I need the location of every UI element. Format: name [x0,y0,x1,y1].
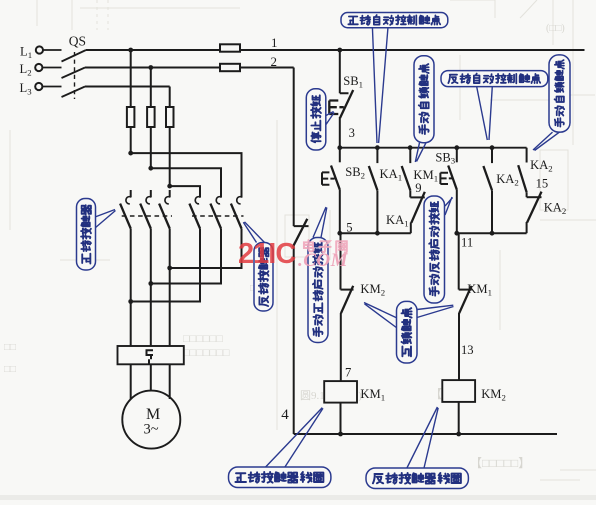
pointer: self-lock right [533,132,560,150]
callout: forward auto control contact [341,13,448,28]
terminal L3 [35,83,42,90]
junction node phase A [128,151,133,156]
contactor coil KM2 [442,380,475,402]
svg-text:(□□): (□□) [546,23,565,34]
pointer: self-lock left [415,143,426,162]
wire node5 down [340,233,342,289]
svg-text:QS: QS [69,34,86,49]
pointer: interlock left [364,303,397,329]
contactor aux contact KM1 (NO, self-lock) [409,148,411,163]
relay contact KA2 (NC) [527,196,542,198]
wire KM2 col6 crossover to phase C [170,236,242,268]
SB1 actuator E [329,101,344,115]
wire KM2 col5 crossover to phase B [151,236,221,284]
callout: reverse contactor [254,243,273,312]
pointer: interlock right [417,305,454,317]
fuse FU2 [220,64,240,71]
svg-text:4: 4 [281,407,289,423]
pointer: stop button [326,112,334,125]
svg-text:1: 1 [271,35,278,50]
pointer: forward contactor [95,210,116,229]
svg-text:□□: □□ [4,364,16,375]
callout: manual self-lock contact (right) [549,55,570,132]
relay contact KA2 (NO, auto control) [491,148,493,163]
svg-text:M: M [146,406,160,423]
svg-text:5: 5 [346,221,352,235]
node 3 bus wire [340,147,527,149]
pointer: manual fwd start [313,207,327,238]
SB3 actuator E [440,173,452,184]
callout: reverse auto control contact [441,71,548,87]
svg-text:□□□□□□□: □□□□□□□ [183,347,230,359]
wire drop phase B [150,68,152,169]
relay contact KA1 (NC) [410,196,425,198]
wire FR to motor 2 [150,364,152,391]
KM2 main contact 1 [199,190,201,197]
svg-text:13: 13 [461,343,474,357]
svg-text:11: 11 [461,236,473,250]
relay contact KA1 (NO, auto control) [376,148,378,163]
wire KM1 col1 down [130,236,132,346]
start button SB3 (NO pushbutton) [456,148,458,163]
callout: manual forward start button [308,238,328,343]
svg-text:【□□□□□】: 【□□□□□】 [470,456,530,470]
start button SB2 (NO pushbutton) [339,148,341,163]
callout: manual reverse start button [424,196,445,303]
thermal overload relay FR box [118,346,184,364]
KM2 main contact 2 [220,190,222,197]
disconnect switch QS pole 2 [42,68,85,79]
wire line 1 [86,49,585,51]
junction line1/fuse drop [128,48,133,53]
fuse FU3 [127,107,134,127]
wire KM1 col3 down [169,236,171,346]
KM2 linkage dashed line [192,215,244,217]
callout: reverse contactor coil [366,468,468,489]
wire line 4 (bottom return) [294,433,557,435]
fuse FU5 [166,107,174,127]
wire drop phase A [130,50,132,153]
junction line2/fuse drop [148,65,153,70]
wire FR to motor 3 [169,364,171,399]
KM1 main contact 3 [169,190,171,197]
node 5 bus wire [340,232,411,234]
QS linkage dashed line [74,52,76,99]
terminal L1 [36,46,43,53]
contactor coil KM1 [324,381,357,403]
wire phase B to KM2 col5 [151,168,221,197]
thermal relay FR contact (NC) on rail [293,219,308,247]
svg-text:7: 7 [345,366,351,380]
left rail from line 2 [294,68,309,227]
wire FR to motor 1 [130,364,132,399]
pointer: reverse contactor [243,222,264,243]
callout: stop button [306,89,326,150]
motor M 3~ [122,391,180,449]
pointer: reverse auto contact [477,86,493,140]
svg-text:.СОМ: .СОМ [298,250,349,271]
callout: forward contactor coil [229,467,331,488]
svg-text:□□: □□ [4,342,16,353]
wire phase A to KM2 col6 [131,153,242,198]
svg-text:9: 9 [415,181,421,195]
svg-text:21IC: 21IC [238,238,296,270]
node 11 bus wire [457,232,527,234]
SB2 actuator E [322,172,335,184]
disconnect switch QS pole 3 [42,87,85,98]
pointer: manual rev start [445,197,453,215]
KM2 main contact 3 [241,190,243,197]
wire drop phase C [169,87,171,187]
stop button SB1 (NC pushbutton) [340,50,349,93]
watermark dianziwang [304,240,347,253]
svg-text:3~: 3~ [144,422,159,438]
wire KM1 col2 down [150,236,152,346]
wire line 2 [85,67,294,69]
svg-text:3: 3 [349,126,355,140]
pointer: forward auto contact [372,27,388,143]
fuse FU4 [147,107,155,127]
pointer: KM2 coil callout [407,407,438,468]
junction node phase C [167,184,172,189]
junction line1/control tap [337,48,342,53]
pointer: KM1 coil callout [266,408,323,467]
wire line 3 [85,86,170,88]
wire KM2 col4 crossover to phase A [131,236,200,302]
KM1 linkage dashed line [122,215,172,217]
junction node phase B [148,166,153,171]
watermark 21IC [238,238,296,270]
contactor contact KM2 (NC, interlock) [341,289,354,291]
fuse FU1 [220,44,240,51]
KM1 main contact 1 [130,190,132,197]
svg-text:2: 2 [271,54,278,69]
wire node11 down [458,233,460,289]
terminal L2 [35,64,42,71]
svg-text:□□□□□□: □□□□□□ [183,333,223,345]
callout: forward contactor [77,199,96,271]
callout: interlock contacts [397,301,418,363]
svg-text:15: 15 [536,176,549,190]
KM1 main contact 2 [150,190,152,197]
contactor contact KM1 (NC, interlock) [459,289,472,291]
wire phase C to KM2 col4 [170,186,200,198]
callout: manual self-lock contact (left) [414,56,434,143]
FR heater element [147,350,154,364]
relay contact KA2 (NO, self-lock) [526,148,528,163]
disconnect switch QS pole 1 [43,50,86,62]
